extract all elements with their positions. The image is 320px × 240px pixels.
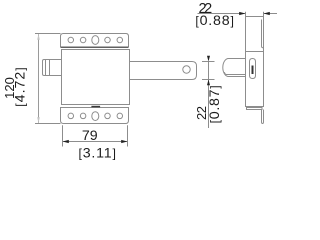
bottom flange oval hole — [92, 112, 99, 121]
top flange oval hole — [92, 36, 99, 45]
bottom extension line (120 dim, bottom) — [35, 123, 61, 125]
top flange hole 3 — [105, 37, 111, 43]
arrow 79 right — [121, 140, 127, 143]
left protrusion — [43, 60, 62, 76]
protrusion collar line 2 — [49, 60, 51, 76]
ext line top-22 right — [263, 12, 265, 22]
keeper bottom lip — [262, 110, 264, 124]
bottom flange — [61, 108, 129, 124]
ext line 79 right — [127, 125, 129, 146]
top flange hole 4 — [117, 37, 123, 43]
arrow 120 bottom — [37, 117, 40, 123]
svg-text:[0.87]: [0.87] — [207, 85, 223, 124]
top flange — [61, 34, 129, 48]
keeper cross line — [246, 51, 264, 53]
keeper plate (side view) — [246, 17, 264, 107]
top flange hole 2 — [80, 37, 86, 43]
ext line 79 left — [62, 125, 64, 146]
arrow 79 left — [63, 140, 69, 143]
slot dark bar — [252, 66, 254, 75]
svg-text:[4.72]: [4.72] — [12, 66, 28, 106]
dim line top-22 right tail — [264, 13, 277, 15]
dim line 120 vertical — [38, 34, 40, 123]
arm — [130, 62, 197, 80]
top flange hole 1 — [68, 37, 74, 43]
body — [62, 50, 130, 105]
ext line right-22 bottom — [202, 79, 215, 81]
arrow right-22 top — [207, 56, 210, 62]
ext line right-22 top — [202, 61, 215, 63]
arrow top-22 right — [264, 12, 270, 15]
bottom flange hole 4 — [117, 113, 123, 119]
dim line 79 — [63, 141, 128, 143]
svg-text:[3.11]: [3.11] — [78, 146, 116, 162]
ext line top-22 left — [245, 12, 247, 17]
arm hole — [183, 66, 190, 73]
dim line top-22 left segment — [198, 13, 246, 15]
keeper slot — [250, 59, 256, 79]
arrow top-22 left — [239, 12, 245, 15]
bottom flange hole 3 — [105, 113, 111, 119]
dim line right-22 vertical — [208, 62, 210, 129]
protrusion collar line 1 — [45, 60, 47, 76]
arrow 120 top — [37, 34, 40, 40]
top extension line (120 dim, top) — [35, 33, 61, 35]
arrow right-22 bottom — [207, 80, 210, 86]
body bottom notch — [91, 106, 100, 108]
bottom flange hole 1 — [68, 113, 74, 119]
keeper bottom bar — [247, 108, 263, 110]
keeper mouth outer J — [223, 59, 246, 77]
keeper top lip inner line — [262, 20, 264, 48]
svg-text:[0.88]: [0.88] — [195, 13, 234, 29]
top flange bend line — [61, 46, 129, 48]
keeper mouth inner line — [224, 72, 245, 74]
svg-text:79: 79 — [82, 128, 98, 144]
bottom flange hole 2 — [80, 113, 86, 119]
